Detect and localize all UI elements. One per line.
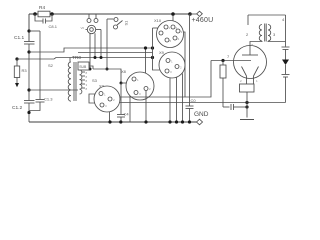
capacitor C4 xyxy=(117,114,125,116)
svg-text:S3: S3 xyxy=(92,78,98,83)
node junction C1.1 top xyxy=(27,29,30,32)
node junction x145.5 (X8 anode) xyxy=(144,46,147,49)
svg-text:C8.1: C8.1 xyxy=(49,24,58,29)
transformer taps xyxy=(82,71,86,73)
tube anode xyxy=(249,46,251,55)
svg-text:+460U: +460U xyxy=(192,17,214,24)
wire X10 right down xyxy=(183,32,185,97)
wire lamp drops xyxy=(89,34,91,70)
wire grid to output tube y60 xyxy=(211,60,234,62)
svg-text:S1: S1 xyxy=(124,20,129,26)
node junctions hub x152.5 xyxy=(151,46,154,49)
capacitor C1.1 xyxy=(24,41,35,43)
svg-text:C1.3: C1.3 xyxy=(44,97,53,102)
svg-text:X10: X10 xyxy=(154,18,162,23)
capacitor C8.1 (parallel with R4) xyxy=(35,14,43,21)
node junction C1.2/C1.3 xyxy=(27,111,30,114)
wire rail to X10 xyxy=(172,14,174,21)
wire to X8 xyxy=(121,82,126,84)
wire X8 pin3 down xyxy=(129,96,131,122)
wire trafo pin2 to anode xyxy=(250,41,262,46)
resistor cathode box xyxy=(240,84,255,92)
node junction y90 xyxy=(27,88,30,91)
ground symbol xyxy=(240,119,254,121)
node terminal M1 xyxy=(15,57,18,60)
svg-text:R3: R3 xyxy=(22,68,28,73)
wire net to X9/X10 hub row y48 xyxy=(29,48,153,52)
terminal +460U xyxy=(190,13,197,15)
diode D1 xyxy=(282,60,289,66)
wire grid net y69 xyxy=(93,69,121,83)
wire +460 drop / C0 xyxy=(189,14,191,106)
node junction R grid xyxy=(221,59,224,62)
wire x121 down to C4 xyxy=(120,83,122,114)
tube grid xyxy=(234,60,251,62)
lamp V0 pins xyxy=(87,19,91,23)
wire right column xyxy=(285,15,287,47)
svg-text:X8: X8 xyxy=(121,69,127,74)
capacitor C9 series in ground return xyxy=(230,104,232,110)
transformer TR0 top lead xyxy=(69,58,71,63)
node junction R4 left xyxy=(33,12,37,16)
svg-text:S2: S2 xyxy=(48,63,54,68)
wire box pin to y69 xyxy=(89,66,93,69)
svg-text:GND: GND xyxy=(194,111,209,118)
wire below C1.1 xyxy=(28,44,30,101)
wire X8 anode drop xyxy=(145,48,147,73)
node junction +460 xyxy=(188,12,192,16)
tube heater xyxy=(242,67,247,77)
node junction at y52 xyxy=(27,50,30,53)
resistor R4 xyxy=(38,11,50,17)
wire trafo pin3 to right col xyxy=(268,40,286,43)
resistor R5 grid leak xyxy=(220,65,226,78)
wire X2 bottom to rail xyxy=(109,112,111,122)
capacitor C1.3 xyxy=(36,99,45,101)
transformer TR1 coils xyxy=(259,25,262,42)
wire x152.5 links xyxy=(153,28,161,70)
svg-text:TR0: TR0 xyxy=(72,55,81,61)
wire node A to C1.3 column xyxy=(29,30,40,32)
node junction y69 dots xyxy=(89,68,92,71)
transformer TR1 top wire xyxy=(248,14,286,16)
transformer TR0 pin box xyxy=(78,62,89,70)
wire top supply rail xyxy=(29,13,190,15)
svg-text:C0: C0 xyxy=(191,98,197,103)
wire bottom ground rail xyxy=(29,121,197,123)
wire mic row y59 xyxy=(17,58,54,60)
node junctions bottom rail xyxy=(108,120,111,123)
wire X8 pin2 down to rail xyxy=(145,91,147,123)
wire trafo bottom to X2 xyxy=(89,94,95,103)
svg-text:X9: X9 xyxy=(159,50,165,55)
svg-text:V0: V0 xyxy=(81,26,85,30)
wire R3 bottom arrow xyxy=(16,78,18,84)
switch S2 xyxy=(54,58,153,60)
wire X9 pins down to rail xyxy=(169,78,171,122)
node junction x121 xyxy=(120,82,123,85)
capacitor C1.2 xyxy=(24,100,35,102)
capacitor C11 right column bottom xyxy=(282,74,290,76)
node junction R4 right xyxy=(50,12,54,16)
wire to transformer secondary xyxy=(29,89,78,91)
tube V1 output triode xyxy=(234,46,267,79)
wire X2 out y97 xyxy=(120,61,211,98)
capacitor C10 right column top xyxy=(282,46,290,48)
switch S1 xyxy=(107,18,114,20)
svg-text:C1.1: C1.1 xyxy=(14,35,24,41)
svg-text:C4: C4 xyxy=(124,112,130,117)
svg-text:SUB: SUB xyxy=(79,65,87,69)
svg-text:C1.2: C1.2 xyxy=(12,105,22,111)
wire left drop from rail xyxy=(28,14,30,42)
wire X2 out y102.5 xyxy=(120,102,286,104)
wire C1.3 feed vertical x40 xyxy=(39,31,41,100)
resistor R3 xyxy=(16,59,18,66)
wire y107 cap xyxy=(223,106,230,108)
node junction y57 dots xyxy=(94,56,97,59)
lamp V0 xyxy=(87,25,95,33)
wire y52.5 xyxy=(78,52,153,54)
svg-text:R4: R4 xyxy=(39,5,45,11)
